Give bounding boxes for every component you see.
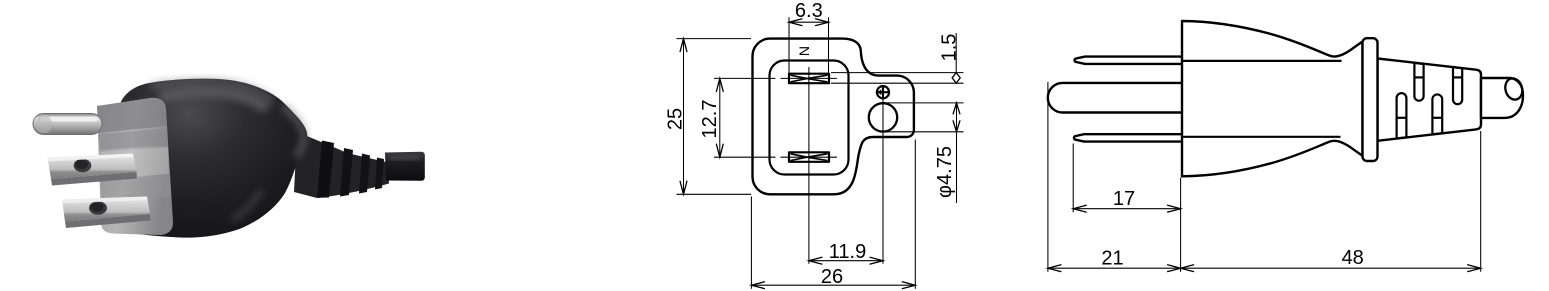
dimension 48 (body length)	[1181, 131, 1481, 272]
side view ground pin	[1048, 83, 1183, 113]
photo: strain relief boot with ribs	[294, 132, 389, 198]
svg-text:48: 48	[1342, 247, 1364, 269]
label N	[796, 46, 812, 56]
svg-text:φ4.75: φ4.75	[934, 146, 956, 198]
side view contour line lower	[1183, 136, 1341, 138]
photo: power cord	[385, 152, 425, 181]
svg-text:N: N	[796, 46, 812, 56]
dimension 25 (overall height)	[665, 39, 752, 195]
photo: upper blade	[48, 154, 138, 186]
svg-text:26: 26	[821, 266, 843, 288]
svg-text:17: 17	[1113, 188, 1135, 210]
vertical centerline through hole	[882, 85, 884, 264]
photo: plug body	[117, 79, 308, 238]
collar flange	[1363, 38, 1378, 161]
cable	[1481, 76, 1525, 118]
side view top blade	[1075, 57, 1184, 64]
photo: ground pin	[33, 114, 102, 135]
dimension 1.5 (slot thickness)	[831, 33, 964, 83]
dimension 11.9 (slot to hole)	[809, 241, 883, 264]
dimension 17 (blade length)	[1073, 144, 1180, 213]
relief slot lower 2	[1432, 94, 1442, 134]
vertical centerline through slots	[808, 67, 810, 264]
svg-text:25: 25	[665, 108, 687, 130]
svg-text:12.7: 12.7	[699, 100, 721, 139]
ground pin hole	[869, 103, 897, 131]
centerline through bottom slot	[714, 156, 837, 158]
dimension 6.3 (slot width)	[789, 0, 829, 73]
front view inner face outline	[770, 61, 849, 175]
center mark (screw symbol)	[876, 85, 889, 99]
photo: face plate	[97, 98, 173, 235]
dimension 21 (pin to face)	[1048, 82, 1181, 272]
svg-text:11.9: 11.9	[829, 241, 866, 263]
side view body	[1182, 21, 1363, 176]
relief slot upper 1	[1414, 63, 1423, 101]
dimension 12.7 (slot spacing)	[699, 78, 723, 157]
slot top (neutral blade)	[789, 74, 829, 84]
strain relief cone	[1378, 59, 1482, 141]
dimension φ4.75 (hole diameter)	[884, 103, 964, 203]
side view contour line upper	[1183, 60, 1342, 62]
photo: lower blade	[62, 197, 151, 229]
side view bottom blade	[1074, 134, 1183, 141]
svg-text:21: 21	[1101, 247, 1123, 269]
relief slot upper 2	[1453, 67, 1462, 104]
svg-text:6.3: 6.3	[795, 0, 823, 22]
front view outer outline	[753, 39, 914, 195]
dimension 26 (overall width)	[751, 140, 915, 289]
relief slot lower 1	[1397, 93, 1407, 138]
svg-text:1.5: 1.5	[938, 34, 960, 62]
centerline through top slot	[714, 77, 837, 79]
slot bottom (line blade)	[789, 152, 829, 162]
